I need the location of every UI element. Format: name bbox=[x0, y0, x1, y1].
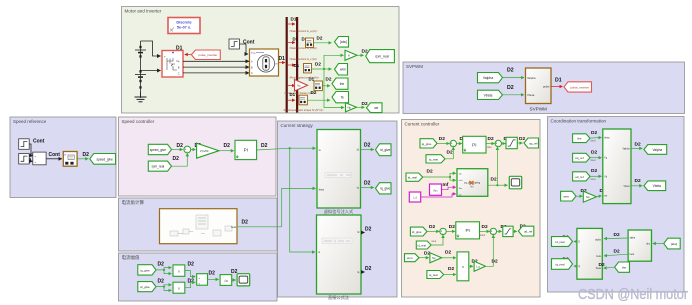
svg-text:id_real: id_real bbox=[417, 243, 426, 247]
wire PI to sum2 d bbox=[480, 230, 490, 232]
svg-text:D2: D2 bbox=[599, 262, 605, 268]
svg-text:pulse_inverter: pulse_inverter bbox=[570, 85, 589, 89]
goto tag iq_give bbox=[376, 183, 392, 194]
svg-text:Valpha: Valpha bbox=[527, 76, 536, 80]
svg-text:D2: D2 bbox=[364, 180, 371, 186]
wire gain to rpm_real bbox=[357, 54, 364, 56]
sqrt block bbox=[220, 275, 232, 286]
from tag iq_real (cc bottom) bbox=[427, 271, 444, 279]
from tag Valpha bbox=[478, 73, 503, 83]
gain Np (cc) bbox=[430, 253, 442, 263]
svg-text:CSDN @Neil motor: CSDN @Neil motor bbox=[578, 287, 688, 303]
measurement bus bar 2 bbox=[296, 17, 298, 113]
svg-text:Te: Te bbox=[341, 96, 345, 100]
wire add to rate block bbox=[46, 158, 62, 160]
svg-text:D2: D2 bbox=[261, 143, 268, 149]
wire sat to ud_ref bbox=[513, 230, 517, 232]
subsystem area: Speed reference box bbox=[10, 117, 116, 198]
wire sum2 to sat d bbox=[497, 230, 502, 232]
svg-text:D2: D2 bbox=[448, 266, 454, 272]
wire sum to PI q bbox=[457, 143, 462, 145]
wire battery plus to inverter bbox=[141, 41, 161, 56]
goto tag [abc] bbox=[335, 37, 349, 48]
svg-text:D2: D2 bbox=[311, 90, 317, 95]
PI controller d bbox=[456, 222, 480, 239]
svg-text:D2: D2 bbox=[224, 143, 231, 149]
svg-text:D2: D2 bbox=[439, 136, 445, 142]
MTPA subsystem 2 bbox=[317, 215, 362, 294]
svg-text:D2: D2 bbox=[158, 278, 165, 284]
wire Np to product bbox=[442, 257, 456, 259]
svg-text:Valpha: Valpha bbox=[652, 148, 662, 152]
goto tag wrm bbox=[335, 64, 348, 76]
bus tap red arrow bbox=[288, 99, 295, 101]
svg-text:D2: D2 bbox=[242, 220, 249, 226]
svg-text:SVPWM: SVPWM bbox=[530, 107, 548, 112]
svg-text:speed_give: speed_give bbox=[150, 148, 167, 152]
wire sat to uq_ref bbox=[517, 142, 522, 144]
wire to wrm goto bbox=[312, 68, 332, 70]
svg-text:the: the bbox=[340, 82, 345, 86]
wire sum2 to sat q bbox=[502, 143, 506, 145]
svg-text:L.d: L.d bbox=[413, 196, 417, 200]
wire to abc goto bbox=[314, 42, 332, 44]
bus tap red arrow bbox=[288, 23, 295, 25]
gain Lq (cc) bbox=[474, 261, 485, 271]
svg-text:D2: D2 bbox=[491, 177, 497, 183]
wire gain to we bbox=[357, 106, 365, 108]
svg-text:D1: D1 bbox=[176, 46, 183, 52]
svg-text:D2: D2 bbox=[635, 178, 641, 184]
svg-text:beta: beta bbox=[319, 187, 325, 191]
svg-text:电流幅值: 电流幅值 bbox=[122, 254, 140, 261]
svg-text:ud_ref: ud_ref bbox=[575, 175, 584, 179]
svg-text:m: m bbox=[276, 63, 278, 66]
DC source V2 bbox=[135, 70, 146, 88]
svg-text:PI: PI bbox=[465, 228, 469, 233]
svg-text:+: + bbox=[198, 276, 200, 280]
svg-text:D2: D2 bbox=[83, 152, 90, 158]
unit delay te row bbox=[299, 95, 307, 105]
unit delay the row bbox=[314, 81, 322, 91]
wire product1 to add bbox=[185, 271, 195, 277]
svg-text:Vbeta: Vbeta bbox=[623, 185, 630, 188]
wire wrm branch vertical bbox=[324, 55, 344, 69]
subsystem area: current amplitude box bbox=[119, 253, 278, 301]
svg-text:<Stator current is_c (A)>: <Stator current is_c (A)> bbox=[289, 57, 318, 61]
svg-text:Cont: Cont bbox=[49, 152, 61, 158]
svg-text:ideal: ideal bbox=[591, 140, 596, 142]
svg-text:uq_ref: uq_ref bbox=[529, 141, 538, 145]
gain 2pi/60 bbox=[197, 143, 219, 158]
wire wrm branch to Np bbox=[324, 69, 344, 108]
wire inverter A to motor bbox=[183, 60, 249, 62]
wire iq to product1 bbox=[156, 268, 171, 270]
wire decoupling to scope bbox=[497, 184, 507, 186]
subsystem area: current angle calc box bbox=[119, 198, 278, 251]
svg-text:SVPWM: SVPWM bbox=[406, 64, 423, 69]
wire Valpha to svpwm bbox=[503, 77, 525, 79]
wire rpm to sum bbox=[172, 153, 188, 166]
svg-text:ideal: ideal bbox=[591, 160, 596, 162]
subsystem area: Current controller box bbox=[402, 120, 541, 298]
svg-text:D1: D1 bbox=[294, 63, 300, 68]
alphabeta to dq subsystem bbox=[577, 228, 602, 279]
svg-text:D2: D2 bbox=[519, 136, 525, 142]
svg-text:Cont: Cont bbox=[33, 139, 45, 145]
gain Np (coord) bbox=[583, 191, 596, 202]
svg-text:D2: D2 bbox=[482, 224, 488, 230]
sum2 d bbox=[490, 228, 496, 235]
wire inverter C to motor bbox=[183, 72, 249, 74]
from tag Vbeta bbox=[478, 90, 503, 99]
svg-text:D2: D2 bbox=[492, 258, 498, 264]
product block 1 bbox=[173, 265, 185, 276]
svg-text:D1: D1 bbox=[291, 17, 297, 22]
svg-text:Valpha: Valpha bbox=[483, 76, 493, 80]
from tag id_real (cc bottom) bbox=[416, 241, 431, 249]
from tag iq_give (amp) bbox=[138, 265, 156, 275]
svg-text:we: we bbox=[374, 106, 378, 110]
svg-text:id_give: id_give bbox=[140, 285, 150, 289]
svg-text:D2: D2 bbox=[614, 248, 620, 254]
MTPA subsystem 1 bbox=[317, 130, 361, 209]
svg-text:D2: D2 bbox=[591, 168, 597, 174]
svg-text:<Stator current is_b (A)>: <Stator current is_b (A)> bbox=[289, 46, 318, 50]
wire wrm to Np coord bbox=[576, 195, 582, 197]
from tag wrm (coord) bbox=[561, 191, 576, 201]
svg-text:D2: D2 bbox=[635, 141, 641, 147]
svg-text:D2: D2 bbox=[445, 250, 451, 256]
goto tag id_give bbox=[376, 144, 392, 156]
svg-text:D2: D2 bbox=[447, 150, 453, 156]
wire beta link bbox=[604, 254, 628, 256]
wire Valpha out bbox=[631, 147, 642, 149]
saturation q bbox=[506, 137, 517, 148]
from tag the (coord) bbox=[573, 134, 590, 143]
measurement bus bar 1 bbox=[286, 17, 288, 113]
svg-text:flux: flux bbox=[433, 188, 438, 192]
wire wrm to Np bbox=[419, 257, 429, 259]
goto tag iq_real bbox=[552, 259, 573, 270]
svg-text:C: C bbox=[178, 72, 180, 75]
svg-text:D2: D2 bbox=[315, 62, 321, 67]
rate transition block bbox=[63, 152, 77, 167]
product block 2 bbox=[173, 282, 185, 293]
wire product to Lq bbox=[469, 265, 473, 267]
wire abc into block bbox=[653, 243, 664, 245]
wire step1 to add bbox=[29, 144, 32, 156]
svg-text:Np: Np bbox=[586, 195, 590, 199]
from tag id_give (cc) bbox=[410, 227, 427, 236]
svg-text:beta: beta bbox=[596, 255, 601, 258]
svg-text:alpha: alpha bbox=[630, 238, 636, 240]
constant Ld block magenta bbox=[409, 192, 420, 202]
mux block row a bbox=[306, 38, 314, 47]
from tag iq_real (cc) bbox=[426, 155, 445, 163]
svg-text:Vbeta: Vbeta bbox=[653, 184, 662, 188]
wire sum to gain bbox=[191, 149, 196, 151]
wire ud to dq2ab bbox=[590, 175, 602, 177]
add block bbox=[33, 152, 46, 165]
from tag rpm_real bbox=[148, 161, 171, 171]
svg-text:<Stator current is_a (A)>: <Stator current is_a (A)> bbox=[289, 29, 318, 33]
svg-text:Vbeta: Vbeta bbox=[527, 93, 535, 97]
svg-text:D2: D2 bbox=[614, 232, 620, 238]
svg-text:ideal: ideal bbox=[591, 179, 596, 181]
svg-text:+: + bbox=[198, 281, 200, 285]
svg-text:D2: D2 bbox=[507, 85, 514, 91]
svg-text:D2: D2 bbox=[158, 262, 165, 268]
svg-text:pulse_inverter: pulse_inverter bbox=[198, 53, 217, 57]
wire id_real to sum d bbox=[431, 235, 443, 245]
svg-text:x: x bbox=[178, 269, 180, 273]
wire battery mid to inverter minus bbox=[141, 70, 161, 72]
constant flux block magenta bbox=[430, 184, 442, 195]
step source block (torque) bbox=[229, 39, 240, 49]
wire motor m output to bus bbox=[279, 62, 286, 64]
wire Vbeta out bbox=[631, 185, 642, 187]
wire add to sqrt bbox=[208, 278, 219, 280]
add block amp bbox=[197, 274, 208, 286]
svg-text:D2: D2 bbox=[449, 224, 455, 230]
svg-text:iq_give: iq_give bbox=[380, 187, 390, 191]
svg-text:D2: D2 bbox=[173, 156, 180, 162]
wire dc bus vertical bbox=[140, 41, 142, 98]
wire step to motor Tm bbox=[240, 44, 249, 54]
svg-text:D1: D1 bbox=[279, 56, 286, 62]
svg-text:Coordination transformation: Coordination transformation bbox=[551, 119, 607, 124]
subsystem area: Current strategy box bbox=[278, 121, 398, 297]
step block 2 bbox=[19, 154, 30, 165]
svg-text:Speed controller: Speed controller bbox=[122, 119, 155, 124]
svg-text:<Rotor speed wm (rad/s)>: <Rotor speed wm (rad/s)> bbox=[289, 76, 320, 80]
from tag iq_give (cc) bbox=[420, 139, 437, 148]
svg-text:D2: D2 bbox=[364, 142, 371, 148]
svg-text:D2: D2 bbox=[488, 136, 494, 142]
svg-text:theta: theta bbox=[604, 136, 610, 139]
wire is branch down to subsystem 2 bbox=[290, 148, 315, 252]
svg-text:电流角计算: 电流角计算 bbox=[122, 199, 145, 206]
wire PI to sum2 q bbox=[486, 143, 495, 145]
svg-text:Lq: Lq bbox=[476, 264, 480, 268]
svg-text:iq_real: iq_real bbox=[429, 273, 438, 277]
svg-text:dela: dela bbox=[487, 146, 492, 149]
saturation d bbox=[503, 226, 513, 236]
PI controller speed bbox=[235, 140, 257, 159]
svg-text:wrm: wrm bbox=[407, 256, 413, 260]
wire to Te goto bbox=[308, 99, 331, 101]
svg-text:D2: D2 bbox=[365, 266, 372, 272]
svg-text:D2: D2 bbox=[209, 270, 216, 276]
svg-text:iq_real: iq_real bbox=[555, 262, 564, 266]
wire to the goto bbox=[323, 85, 331, 87]
svg-text:alpha: alpha bbox=[595, 239, 601, 241]
wire beta into subsystem 1 bbox=[282, 188, 316, 226]
svg-text:speed_give: speed_give bbox=[96, 157, 113, 161]
decoupling subsystem uq bbox=[457, 169, 488, 197]
svg-text:ideal: ideal bbox=[480, 234, 486, 237]
svg-text:D2: D2 bbox=[591, 149, 597, 155]
svg-text:idea: idea bbox=[432, 240, 437, 243]
svg-text:wrm: wrm bbox=[563, 195, 569, 199]
wire product2 to add bbox=[185, 282, 195, 287]
wire gain to PI bbox=[219, 150, 234, 152]
step block 1 bbox=[19, 139, 30, 150]
wire id to goto bbox=[361, 149, 374, 151]
beta calculation subsystem bbox=[160, 209, 238, 244]
svg-text:PI: PI bbox=[472, 142, 476, 147]
wire inverter B to motor bbox=[183, 66, 249, 68]
from tag pulse_inverter (motor side) bbox=[185, 54, 192, 56]
from tag ud_ref (coord) bbox=[573, 172, 590, 181]
wire to sum q bbox=[437, 143, 449, 145]
goto tag speed_give bbox=[90, 154, 116, 165]
wire sqrt to scope bbox=[232, 279, 236, 281]
wire to speed_give bbox=[77, 158, 88, 160]
svg-text:D2: D2 bbox=[507, 68, 514, 74]
from tag id_give (amp) bbox=[138, 282, 156, 292]
svg-text:K: K bbox=[348, 53, 350, 57]
wire flux to decoupling bbox=[442, 187, 456, 190]
sum2 q bbox=[495, 140, 501, 147]
svg-text:D2: D2 bbox=[177, 143, 184, 149]
svg-text:PI: PI bbox=[244, 148, 248, 153]
sum q current bbox=[450, 140, 456, 147]
subsystem area: Speed controller box bbox=[119, 117, 277, 196]
subsystem area: Coordination transformation box bbox=[548, 117, 685, 293]
wire id_real to decoupling bbox=[423, 173, 456, 177]
svg-text:id_give: id_give bbox=[412, 230, 422, 234]
svg-text:虚拟信号注入式: 虚拟信号注入式 bbox=[324, 208, 354, 215]
wire the into block theta bbox=[604, 267, 615, 268]
svg-text:直接公式法: 直接公式法 bbox=[328, 294, 349, 301]
svg-text:Speed reference: Speed reference bbox=[13, 119, 47, 124]
svg-text:Q: Q bbox=[578, 266, 580, 268]
svg-text:Current controller: Current controller bbox=[405, 122, 440, 127]
stub arrow sub2 iq bbox=[361, 271, 365, 273]
wire pulse to goto bbox=[551, 86, 563, 88]
goto tag ud_ref bbox=[518, 226, 533, 236]
svg-text:D2: D2 bbox=[365, 226, 372, 232]
goto tag we bbox=[367, 103, 383, 113]
PI controller q bbox=[463, 136, 486, 153]
svg-text:D2: D2 bbox=[317, 36, 323, 41]
bus tap red arrow bbox=[288, 64, 295, 66]
wire sum to PI d bbox=[446, 230, 455, 232]
goto tag the bbox=[332, 78, 348, 89]
svg-text:Current strategy: Current strategy bbox=[281, 123, 314, 128]
wire alpha link bbox=[604, 237, 628, 240]
svg-text:the: the bbox=[622, 266, 627, 270]
svg-text:√u: √u bbox=[224, 279, 228, 283]
inverter block (IGBT bridge) bbox=[162, 51, 183, 78]
from tag speed_give bbox=[148, 144, 171, 154]
gain Np we bbox=[346, 103, 357, 112]
gain rad2rpm bbox=[345, 50, 357, 60]
goto tag Valpha bbox=[644, 145, 667, 155]
product block cc bbox=[457, 252, 469, 281]
from tag the (coord bottom) bbox=[615, 262, 630, 272]
svg-text:x: x bbox=[178, 287, 180, 291]
svg-text:5e-07 s.: 5e-07 s. bbox=[177, 25, 191, 30]
goto tag Vbeta bbox=[644, 181, 666, 191]
sum d current bbox=[440, 228, 446, 235]
svg-text:D2: D2 bbox=[427, 168, 433, 174]
svg-text:ud_ref: ud_ref bbox=[524, 230, 533, 234]
svg-text:Np: Np bbox=[297, 83, 301, 87]
wire beta output bbox=[237, 226, 282, 228]
goto tag Te bbox=[332, 92, 349, 103]
svg-text:pulse: pulse bbox=[543, 85, 550, 89]
svg-text:[abc]: [abc] bbox=[671, 242, 678, 246]
wire iq_real to sum q bbox=[445, 147, 453, 159]
wire decoupling to sum2 q bbox=[488, 147, 498, 185]
wire Np to dq2ab ws bbox=[597, 196, 602, 197]
svg-text:id_real: id_real bbox=[408, 176, 417, 180]
svg-text:beta: beta bbox=[231, 226, 236, 229]
wire Vbeta to svpwm bbox=[503, 94, 525, 96]
svg-text:+: + bbox=[164, 55, 166, 59]
mux block row c bbox=[304, 64, 312, 73]
svg-text:id_real: id_real bbox=[555, 240, 564, 244]
goto tag id_real bbox=[552, 237, 573, 247]
svg-text:D1: D1 bbox=[293, 37, 299, 42]
svg-text:D2: D2 bbox=[326, 76, 332, 81]
svg-text:rpm_real: rpm_real bbox=[375, 55, 389, 59]
wire the to dq2ab bbox=[590, 136, 602, 139]
svg-text:D1: D1 bbox=[555, 78, 562, 84]
subsystem area: SVPWM box bbox=[403, 62, 685, 114]
svg-text:D2: D2 bbox=[188, 262, 195, 268]
SVPWM subsystem block bbox=[526, 68, 552, 112]
svg-text:Np: Np bbox=[432, 256, 436, 260]
svg-text:D2: D2 bbox=[591, 130, 597, 136]
abc to alphabeta subsystem bbox=[628, 230, 651, 261]
svg-text:Motor and Inverter: Motor and Inverter bbox=[125, 9, 162, 14]
stub arrow sub2 id bbox=[361, 232, 365, 234]
powergui block Discrete 5e-07s bbox=[168, 18, 200, 34]
svg-text:beta: beta bbox=[630, 253, 635, 256]
wire q out to iq_real bbox=[574, 265, 577, 267]
svg-text:Np: Np bbox=[347, 105, 351, 109]
wire Ld to decoupling bbox=[421, 194, 456, 197]
svg-text:iq_give: iq_give bbox=[422, 142, 432, 146]
wire iq to goto bbox=[361, 187, 374, 189]
from tag [abc] (coord) bbox=[664, 238, 680, 249]
svg-text:Valpha: Valpha bbox=[623, 149, 631, 151]
wire d out to id_real bbox=[574, 241, 577, 243]
goto tag pulse_inverter bbox=[564, 82, 592, 92]
red gain Np rotor angle bbox=[295, 80, 308, 92]
sum junction speed error bbox=[184, 146, 191, 153]
svg-text:the: the bbox=[577, 137, 582, 141]
svg-text:id_give: id_give bbox=[380, 148, 390, 152]
wire iq_real to product bbox=[444, 274, 456, 276]
svg-text:2*pi/60: 2*pi/60 bbox=[200, 149, 209, 153]
svg-text:iq_give: iq_give bbox=[140, 268, 150, 272]
wire step2 to add bbox=[29, 159, 32, 161]
PMSM motor block bbox=[250, 49, 279, 76]
wire id to product2 bbox=[156, 285, 171, 287]
wire to sum d bbox=[427, 230, 439, 232]
wire to sum bbox=[172, 149, 183, 151]
wire PI out to current strategy bbox=[257, 148, 316, 150]
wire Lq to sum2 d bbox=[486, 235, 494, 266]
svg-text:+: + bbox=[35, 155, 37, 159]
svg-text:[abc]: [abc] bbox=[340, 40, 347, 44]
svg-text:rpm_real: rpm_real bbox=[152, 165, 165, 169]
